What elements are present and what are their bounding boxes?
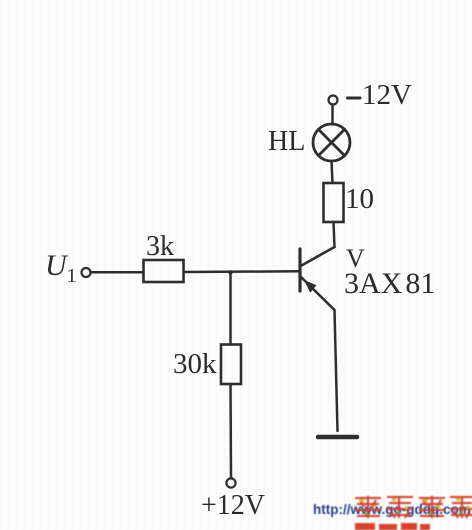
transistor V emitter arrowhead [304, 280, 317, 293]
label HL [268, 126, 305, 158]
wire 30k to +12V terminal [229, 384, 232, 478]
label U1 [45, 249, 77, 288]
resistor R 30k [221, 345, 241, 385]
lamp HL [313, 124, 350, 161]
terminal circle +12V [226, 478, 235, 487]
label -12V value [362, 79, 412, 112]
label 30k [173, 348, 217, 381]
label +12V [201, 490, 265, 522]
transistor V collector lead [302, 247, 335, 266]
transistor V emitter lead [302, 278, 335, 311]
minus dash of -12V [348, 97, 361, 100]
resistor R 10 [324, 183, 344, 222]
wire input to resistor 3k [91, 271, 144, 274]
wire resistor 10 to collector [334, 222, 335, 247]
wire junction to resistor 30k [229, 272, 232, 345]
ground [318, 435, 357, 440]
label 3AX81 [344, 267, 435, 301]
wire lamp to resistor 10 [332, 161, 333, 183]
input terminal circle U1 [82, 268, 91, 277]
label V [346, 244, 365, 274]
emitter wire down [335, 310, 338, 431]
label 3k [146, 231, 174, 263]
wire 3k to base [184, 270, 300, 273]
wire terminal to lamp [331, 105, 334, 125]
terminal circle -12V [329, 96, 338, 105]
label 10 [345, 183, 374, 216]
watermark red characters [353, 494, 472, 530]
watermark url [313, 502, 471, 517]
resistor R 3k [144, 260, 184, 282]
junction node [228, 270, 232, 274]
transistor V base bar [298, 249, 301, 291]
